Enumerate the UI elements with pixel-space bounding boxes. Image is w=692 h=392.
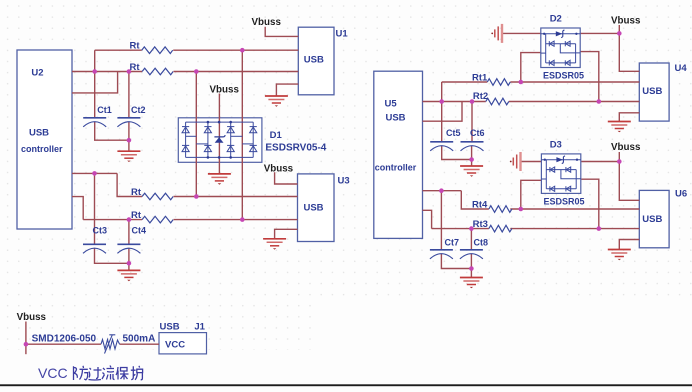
- wire D2 left pin from Rt1 line: [521, 53, 541, 82]
- wire U6 ground: [619, 240, 639, 250]
- wire Ct3 stem: [94, 173, 96, 244]
- node line D / vertical: [240, 217, 245, 222]
- D1 column 1: [185, 122, 187, 157]
- svg-text:D2: D2: [550, 14, 562, 25]
- wire Ct3 bottom to join: [95, 248, 129, 263]
- svg-text:USB: USB: [642, 214, 662, 225]
- wire Vbuss to U1: [265, 27, 298, 37]
- wire Ct1 bottom to join: [95, 122, 129, 141]
- D1 diode col4 bottom: [250, 145, 257, 151]
- node D3 Vbuss: [617, 159, 622, 164]
- node line B / vertical: [194, 69, 199, 74]
- capacitor Ct2: [117, 118, 140, 127]
- D3 ESD array: [541, 154, 580, 194]
- svg-text:J1: J1: [194, 322, 205, 333]
- wire D2 right pin from Rt2 line: [580, 52, 599, 102]
- D1 mid connector io1-col2: [196, 143, 208, 145]
- ground under Ct8: [460, 278, 483, 289]
- svg-text:Vbuss: Vbuss: [252, 17, 282, 28]
- char 过: [89, 367, 102, 380]
- ground U3: [263, 239, 286, 250]
- wire Ct7 stem: [440, 191, 442, 250]
- svg-text:Rt3: Rt3: [473, 219, 488, 230]
- node Rt2 line / D2 right: [597, 99, 602, 104]
- svg-text:500mA: 500mA: [123, 334, 156, 345]
- D1 diode col1 bottom: [182, 145, 189, 151]
- D1 ESD array box: [178, 118, 262, 163]
- svg-text:ESDSR05: ESDSR05: [544, 196, 585, 206]
- svg-text:controller: controller: [21, 144, 63, 154]
- ground rotated at D2: [491, 24, 502, 43]
- D2 ESD array: [541, 28, 580, 68]
- resistor Rt (C): [142, 193, 173, 200]
- wire D2 line to rotated ground: [502, 32, 541, 34]
- wire Ct6 bottom to ground: [471, 146, 473, 167]
- wire Vbuss to U6 pin1: [619, 152, 639, 200]
- svg-text:VCC: VCC: [165, 340, 185, 351]
- node U2 pin1 / Ct1: [92, 69, 97, 74]
- D1 column 4: [252, 122, 254, 157]
- junction dots (magenta): [24, 31, 622, 346]
- char 防: [74, 366, 88, 380]
- D1 diode col3 bottom: [227, 145, 234, 151]
- D1 diode col2 top: [204, 127, 211, 133]
- wire D3 right pin from Rt3 line: [581, 179, 599, 228]
- svg-text:USB: USB: [160, 322, 180, 333]
- resistor Rt2: [486, 98, 509, 105]
- wire Vbuss bottom left vertical: [25, 322, 27, 355]
- wire Vbuss center to D1/ground: [218, 94, 220, 174]
- svg-text:U1: U1: [336, 29, 349, 40]
- resistor Rt (B): [142, 68, 173, 75]
- fuse SMD1206-050 symbol: [101, 335, 120, 354]
- char 保: [116, 367, 129, 380]
- char 流: [102, 366, 115, 380]
- capacitor Ct8: [460, 250, 483, 259]
- node line C / vertical: [194, 194, 199, 199]
- svg-text:Rt: Rt: [130, 62, 141, 73]
- wire Vbuss to U3: [275, 172, 298, 184]
- node Ct4 / line D: [127, 217, 132, 222]
- wire Ct6 stem: [471, 102, 473, 142]
- wire net C: U2 pin3 to Rt to U3: [72, 172, 117, 174]
- wire Ct8 stem: [470, 229, 472, 250]
- svg-text:Rt4: Rt4: [472, 200, 488, 211]
- svg-text:D1: D1: [270, 130, 283, 141]
- ground under Ct6: [460, 166, 483, 177]
- resistor Rt (A): [142, 47, 173, 54]
- node Ct6 ground join: [469, 157, 474, 162]
- wire net R2: U5 pin2 jog: [423, 102, 463, 122]
- ground U1: [265, 96, 288, 107]
- D1 diode col4 top: [250, 127, 257, 133]
- node Ct6 / Rt2 line: [470, 99, 475, 104]
- svg-text:USB: USB: [29, 128, 49, 139]
- svg-text:ESDSRV05-4: ESDSRV05-4: [265, 143, 326, 154]
- capacitor Ct1: [83, 118, 106, 127]
- D1 column 3: [230, 122, 232, 157]
- wire Vbuss to U4 pin1: [619, 25, 639, 71]
- wire Ct4 stem: [128, 220, 130, 244]
- D1 mid connector col3-io2: [231, 135, 243, 137]
- wire D3 line to rotated ground: [521, 161, 542, 163]
- svg-text:Rt: Rt: [131, 187, 142, 198]
- wire D3 left pin from Rt4 line: [521, 180, 542, 209]
- text 防过流保护 caption strokes: [74, 366, 143, 381]
- wire U3 ground: [275, 229, 298, 239]
- wire U4 ground: [619, 113, 639, 122]
- svg-text:USB: USB: [642, 86, 662, 97]
- resistor Rt3: [489, 225, 512, 232]
- resistor Rt (D): [142, 216, 173, 223]
- U4 USB box: [639, 63, 669, 121]
- D1 internals: top rail: [186, 122, 254, 157]
- ground under D1: [208, 174, 231, 185]
- wire net A vertical through D1 (x242.3): [241, 50, 243, 219]
- node Rt4 line / D3 left: [519, 207, 524, 212]
- resistor Rt4: [489, 206, 512, 213]
- J1 USB connector box: [159, 333, 207, 354]
- svg-text:Ct3: Ct3: [93, 226, 108, 236]
- node Ct8 ground join: [469, 266, 474, 271]
- svg-text:Vbuss: Vbuss: [210, 85, 240, 96]
- char 护: [131, 366, 143, 380]
- svg-text:U5: U5: [385, 99, 398, 110]
- D1 rail dots: [207, 121, 232, 159]
- svg-text:VCC: VCC: [38, 365, 68, 381]
- wire net R3: U5 pin4 jog down: [423, 210, 432, 228]
- wire net R4: U5 pin3 to Rt4: [423, 190, 462, 192]
- resistor Rt1: [487, 79, 510, 86]
- node Ct8 / Rt3 line: [469, 226, 474, 231]
- ground under Ct2: [117, 151, 140, 162]
- D1 column 2: [207, 122, 209, 157]
- D1 diode col1 top: [182, 127, 189, 133]
- wire Ct5 stem: [441, 102, 443, 142]
- bottom separator line: [0, 384, 692, 386]
- svg-text:USB: USB: [303, 203, 323, 214]
- node Ct2 / Rt line: [127, 69, 132, 74]
- wire Ct5 bottom to join: [442, 146, 472, 160]
- node Rt3 line / D3 right: [597, 226, 602, 231]
- wire U1 ground: [276, 84, 298, 96]
- svg-text:U4: U4: [675, 63, 688, 74]
- U3 USB box: [298, 174, 335, 242]
- wire D2 line to Vbuss node: [580, 32, 619, 34]
- ground U6: [608, 250, 631, 261]
- capacitor Ct3: [83, 244, 106, 253]
- capacitor Ct5: [430, 142, 453, 151]
- svg-text:USB: USB: [385, 113, 405, 124]
- U2 USB controller box: [17, 50, 72, 229]
- node Vbuss / fuse: [24, 342, 29, 347]
- svg-text:Rt: Rt: [131, 210, 142, 221]
- node line A / vertical: [240, 48, 245, 53]
- node Ct2 ground join: [127, 138, 132, 143]
- svg-text:Rt1: Rt1: [472, 73, 488, 84]
- node U5 pin1 / Ct5: [439, 99, 444, 104]
- wire D3 line to Vbuss node: [581, 161, 619, 163]
- svg-text:Rt2: Rt2: [473, 91, 488, 102]
- node U2 pin3 / Ct3: [92, 171, 97, 176]
- D1 bottom rail: [186, 156, 254, 158]
- wire net B: U2 pin2 jog up to Rt line: [72, 72, 118, 93]
- node Ct4 ground join: [127, 261, 132, 266]
- wire net R1: U5 pin1 line: [423, 101, 486, 103]
- wire Ct7 bottom to join: [441, 253, 471, 268]
- svg-text:U3: U3: [338, 176, 350, 187]
- ground under Ct4: [117, 270, 140, 281]
- svg-text:Ct1: Ct1: [97, 105, 112, 115]
- capacitor Ct4: [117, 244, 140, 253]
- node Rt1 line / D2 left: [519, 80, 524, 85]
- svg-text:controller: controller: [375, 163, 417, 173]
- svg-text:D3: D3: [550, 140, 562, 151]
- svg-text:Rt: Rt: [130, 41, 141, 52]
- ground U4: [608, 122, 631, 133]
- svg-text:Ct4: Ct4: [132, 226, 147, 236]
- svg-text:U6: U6: [675, 188, 687, 199]
- svg-text:Ct6: Ct6: [470, 128, 485, 138]
- svg-text:Vbuss: Vbuss: [611, 16, 641, 27]
- wire net D: U2 pin4 jog down: [72, 197, 83, 220]
- D1 center zener: [214, 135, 225, 143]
- svg-text:Vbuss: Vbuss: [17, 312, 47, 323]
- wire fuse line to J1: [26, 343, 159, 345]
- svg-text:ESDSR05: ESDSR05: [543, 71, 584, 81]
- D1 diode col2 bottom: [204, 145, 211, 151]
- wire Ct2 bottom to ground: [128, 122, 130, 152]
- capacitor Ct6: [461, 142, 484, 151]
- wire Ct1 stem: [94, 72, 96, 118]
- svg-text:Ct5: Ct5: [446, 128, 461, 138]
- node U5 pin3 / Ct7: [439, 188, 444, 193]
- svg-text:Vbuss: Vbuss: [611, 142, 641, 153]
- wire Ct8 bottom to ground: [470, 253, 472, 277]
- U1 USB box: [298, 27, 334, 95]
- svg-text:Ct8: Ct8: [474, 238, 489, 248]
- wire net B vertical through D1 (x196.3): [195, 72, 197, 197]
- wire net A: U2 pin1 to Rt and U1, via x94.7: [26, 25, 639, 354]
- svg-text:U2: U2: [31, 68, 43, 79]
- svg-text:SMD1206-050: SMD1206-050: [32, 334, 97, 345]
- svg-text:Ct2: Ct2: [131, 105, 146, 115]
- D1 mid connector io2-col4: [242, 143, 253, 145]
- D1 mid connector col1-io1: [186, 135, 197, 137]
- node D2 Vbuss: [617, 31, 622, 36]
- wire Ct2 stem: [128, 72, 130, 118]
- svg-text:USB: USB: [304, 55, 324, 66]
- capacitor Ct7: [430, 250, 453, 259]
- ground rotated at D3: [510, 152, 521, 171]
- U6 USB box: [639, 190, 669, 247]
- svg-text:Ct7: Ct7: [445, 238, 460, 248]
- D1 diode col3 top: [227, 127, 234, 133]
- wire Ct4 bottom to ground: [128, 248, 130, 271]
- U5 controller box: [374, 71, 423, 238]
- svg-text:Vbuss: Vbuss: [264, 164, 294, 175]
